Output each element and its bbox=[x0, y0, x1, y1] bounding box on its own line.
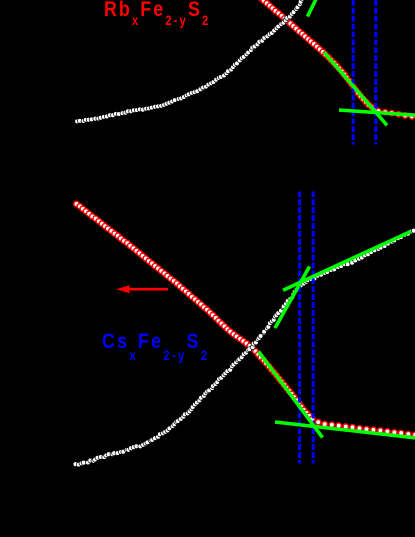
top panel: green tangent line (steep section) bbox=[324, 52, 387, 125]
label: CsxFe2-yS2 (blue, bottom panel) bbox=[102, 331, 209, 352]
bottom panel: long green line along gentle white section bbox=[283, 231, 411, 290]
top panel: white-circle data series (susceptibility of RbxFe2-yS2) bbox=[75, 0, 307, 124]
bottom panel: red-circle data series bbox=[74, 201, 415, 437]
bottom panel: blue dashed vertical line 2 bbox=[312, 192, 315, 464]
top panel: short green segment near top edge bbox=[308, 0, 317, 17]
top panel: blue dashed vertical line 2 bbox=[374, 0, 377, 145]
bottom panel: green steep tangent arm at white-curve kink bbox=[275, 267, 310, 329]
bottom panel: red arrow pointing left bbox=[116, 285, 168, 293]
bottom panel: green tangent along steep red section bbox=[259, 352, 323, 438]
bottom panel: white-circle data series (CsxFe2-yS2) bbox=[73, 228, 415, 467]
top panel: red-circle data series bbox=[258, 0, 414, 119]
label: RbxFe2-yS2 (red, top panel) bbox=[104, 0, 210, 20]
bottom panel: green flat tangent at red kink bbox=[275, 422, 415, 438]
top panel: blue dashed vertical line 1 bbox=[352, 0, 355, 145]
top panel: green tangent line (flat section) bbox=[339, 110, 415, 115]
bottom panel: blue dashed vertical line 1 bbox=[298, 192, 301, 464]
